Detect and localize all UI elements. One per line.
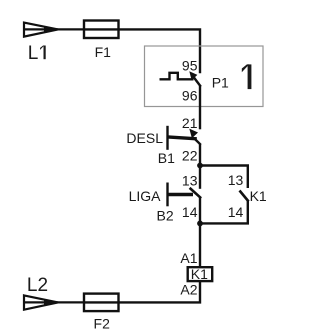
coil K1: [188, 267, 213, 281]
svg-text:95: 95: [182, 57, 198, 73]
svg-text:K1: K1: [250, 188, 267, 204]
svg-text:13: 13: [228, 172, 244, 188]
wire 22 to node: [199, 144, 201, 166]
pushbutton B1 blade 21-22: [168, 137, 197, 139]
svg-text:A2: A2: [180, 281, 197, 297]
svg-text:B2: B2: [157, 207, 174, 223]
svg-text:LIGA: LIGA: [129, 188, 162, 204]
svg-text:A1: A1: [180, 250, 197, 266]
pushbutton B2 blade 13-14: [190, 188, 202, 198]
svg-text:14: 14: [182, 204, 198, 220]
pushbutton B1 operator: [166, 126, 168, 150]
wire K1 contact to node bottom (right branch bottom): [200, 201, 248, 224]
fuse F2: [84, 294, 119, 312]
wire 96 to 21: [199, 86, 201, 129]
wire F2 to L2: [57, 301, 84, 303]
svg-text:P1: P1: [212, 75, 229, 91]
svg-text:13: 13: [182, 172, 198, 188]
overload relay box P1: [145, 46, 264, 107]
svg-text:14: 14: [228, 204, 244, 220]
pushbutton B2 upper terminal: [199, 166, 201, 189]
label 1: [242, 64, 252, 89]
svg-text:F1: F1: [95, 44, 112, 60]
svg-text:22: 22: [182, 147, 198, 163]
wire L1 to F1: [57, 28, 84, 30]
blade arrowhead 21: [189, 129, 198, 139]
wire F1 to overload contact (corner at top right): [119, 29, 201, 73]
pushbutton B2 actuator link: [168, 193, 194, 197]
contact K1 blade 13-14: [240, 191, 249, 202]
svg-text:L2: L2: [27, 275, 48, 296]
contact blade 95-96: [193, 76, 201, 87]
thermal actuator (bump line): [160, 73, 194, 80]
svg-text:21: 21: [182, 115, 198, 131]
svg-text:L: L: [28, 43, 39, 64]
svg-text:DESL: DESL: [126, 130, 163, 146]
wire node to K1 contact (right branch top): [200, 166, 248, 189]
svg-text:96: 96: [182, 88, 198, 104]
svg-text:K1: K1: [191, 266, 208, 282]
pushbutton B2 operator: [166, 183, 168, 207]
fuse F1: [84, 21, 119, 39]
blade arrowhead 95: [189, 71, 197, 80]
wire 14 to node bottom: [199, 198, 201, 224]
svg-text:F2: F2: [94, 315, 111, 331]
terminal arrow L2: [24, 295, 59, 309]
wire node to coil A1: [199, 223, 201, 267]
wire A2 to F2: [119, 282, 201, 303]
terminal arrow L1: [24, 23, 59, 37]
node junction top: [197, 163, 203, 169]
svg-text:B1: B1: [158, 150, 175, 166]
node junction bottom: [197, 221, 203, 227]
